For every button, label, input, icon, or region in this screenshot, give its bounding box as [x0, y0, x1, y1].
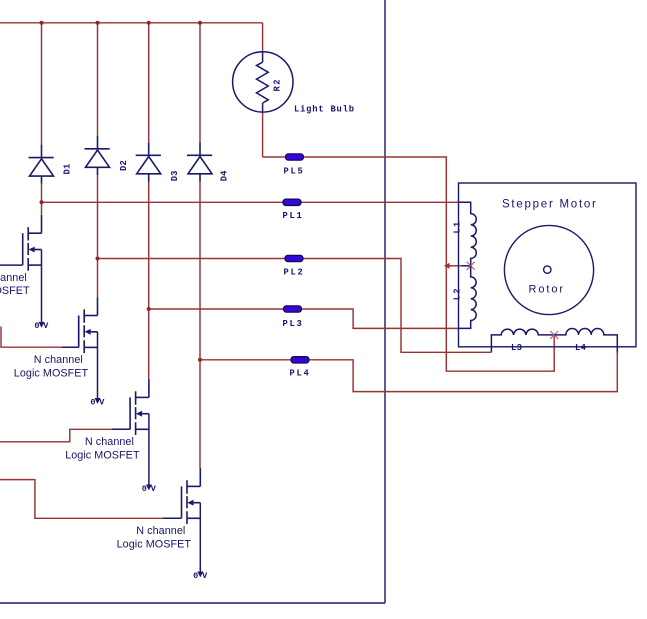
connector PL1 [283, 199, 301, 205]
wire M4 source [199, 503, 201, 572]
svg-text:N channel: N channel [85, 436, 134, 448]
wire M3 gate lead [112, 428, 130, 430]
connector PL5 [286, 154, 304, 160]
junction dots [40, 21, 203, 362]
inductor L2 [458, 266, 476, 329]
svg-text:L1: L1 [452, 221, 462, 234]
border frame [0, 0, 385, 603]
wire PL1 route [42, 201, 459, 203]
ground M4 [193, 571, 208, 581]
wire PL2 route [98, 259, 492, 353]
wire top supply bus [0, 22, 263, 24]
wire column D3 [148, 23, 150, 379]
wire M4 gate lead [163, 517, 182, 519]
wire PL3 route [149, 309, 459, 328]
junction X L3-L4 [550, 331, 558, 339]
wire M4 gate route [0, 480, 163, 519]
svg-text:Logic MOSFET: Logic MOSFET [14, 367, 89, 379]
wire column D4 [199, 23, 201, 468]
svg-text:Logic MOSFET: Logic MOSFET [0, 285, 30, 297]
svg-text:D4: D4 [219, 170, 229, 181]
transistor M3 [130, 379, 149, 435]
svg-text:N channel: N channel [34, 354, 83, 366]
svg-text:Rotor: Rotor [529, 284, 565, 296]
svg-text:L4: L4 [575, 343, 587, 353]
svg-text:R2: R2 [273, 78, 283, 92]
svg-text:PL1: PL1 [283, 211, 304, 221]
rotor shaft [544, 266, 551, 273]
wire PL5 route [263, 112, 555, 371]
rotor [504, 225, 593, 314]
label M4 [117, 525, 192, 550]
svg-text:PL5: PL5 [284, 167, 305, 177]
junction X L1-L2 [467, 262, 475, 270]
svg-text:Light Bulb: Light Bulb [294, 105, 355, 115]
connector PL3 [284, 306, 302, 312]
label M3 [65, 436, 140, 461]
wire bulb drop [262, 23, 264, 51]
wire M2 source [97, 332, 99, 399]
wire M2 gate lead [62, 316, 79, 348]
wire center tap branch [446, 265, 462, 267]
inductor L4 [554, 329, 617, 353]
wire column D1 [41, 23, 43, 215]
svg-text:N channel: N channel [0, 272, 27, 284]
ground M3 [142, 484, 157, 494]
wire PL4 route [200, 353, 617, 392]
diode D2 [85, 136, 110, 175]
transistor M4 [182, 468, 201, 524]
svg-text:Logic MOSFET: Logic MOSFET [65, 449, 140, 461]
ground M2 [90, 397, 105, 407]
svg-text:Stepper Motor: Stepper Motor [502, 199, 598, 211]
wire M1 source [41, 250, 43, 323]
wire M2 gate route [1, 327, 62, 348]
diode D1 [29, 145, 54, 184]
diode D4 [187, 142, 212, 181]
wire column D2 [97, 23, 99, 297]
label M2 [14, 354, 89, 379]
diode D3 [136, 142, 161, 181]
transistor M1 [23, 215, 42, 271]
light bulb R2 [233, 51, 293, 112]
wire M1 gate lead [0, 264, 23, 266]
wire M3 gate route [0, 429, 112, 442]
ground M1 [34, 321, 49, 331]
label M1 [0, 272, 30, 297]
wire center tap navy [462, 265, 471, 267]
svg-text:D3: D3 [170, 170, 180, 181]
transistor M2 [79, 297, 98, 353]
svg-text:PL3: PL3 [283, 319, 304, 329]
svg-text:PL2: PL2 [284, 268, 305, 278]
svg-text:N channel: N channel [136, 525, 185, 537]
svg-text:L2: L2 [452, 287, 462, 300]
svg-text:Logic MOSFET: Logic MOSFET [117, 538, 192, 550]
connector PL4 [291, 357, 309, 363]
wire M3 source [148, 414, 150, 485]
svg-text:D1: D1 [62, 164, 72, 175]
inductor L3 [491, 329, 554, 352]
connector PL2 [285, 255, 303, 261]
svg-text:PL4: PL4 [290, 369, 311, 379]
stepper motor box [459, 183, 637, 347]
inductor L1 [458, 202, 476, 265]
junction arrow [444, 263, 450, 269]
svg-text:L3: L3 [511, 343, 522, 353]
svg-text:D2: D2 [119, 160, 129, 171]
